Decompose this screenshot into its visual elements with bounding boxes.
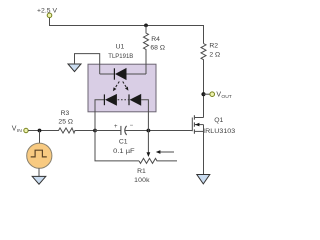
wire to pulse source bbox=[39, 131, 41, 144]
junction dot left pin bbox=[93, 129, 97, 133]
svg-text:OUT: OUT bbox=[221, 94, 231, 100]
pulse source square wave bbox=[31, 150, 47, 157]
resistor R1 bbox=[139, 158, 177, 163]
wire right photodiode pin / R1 wiper bbox=[141, 100, 148, 153]
svg-text:−: − bbox=[130, 123, 134, 129]
resistor R3 bbox=[57, 128, 95, 133]
resistor R2 bbox=[201, 44, 206, 118]
wire Vin to R3 bbox=[28, 130, 57, 132]
ground under Q1 bbox=[197, 175, 210, 184]
svg-text:2 Ω: 2 Ω bbox=[209, 51, 220, 58]
node Vin terminal circle bbox=[24, 128, 28, 132]
transistor Q1 drain stub bbox=[194, 117, 203, 119]
adjust annotation arrow bbox=[160, 151, 175, 153]
svg-text:IRLU3103: IRLU3103 bbox=[203, 128, 235, 135]
svg-text:+2.5 V: +2.5 V bbox=[37, 7, 57, 14]
transistor Q1 body stub bbox=[195, 124, 204, 126]
optocoupler U1 TLP191B body box bbox=[88, 64, 156, 112]
svg-text:25 Ω: 25 Ω bbox=[58, 119, 73, 126]
LED inside U1: wire bbox=[100, 73, 146, 75]
dashed link between photodiodes bbox=[118, 99, 129, 101]
light arrow left dashed bbox=[114, 82, 119, 90]
wire left photodiode pin down to R1 bbox=[95, 100, 139, 161]
junction dot top rail / R4 bbox=[144, 24, 148, 28]
svg-text:R1: R1 bbox=[137, 168, 146, 175]
svg-text:IN: IN bbox=[17, 128, 22, 134]
svg-text:R4: R4 bbox=[151, 36, 160, 43]
wire C1 to gate bbox=[125, 130, 192, 132]
svg-text:R3: R3 bbox=[61, 110, 70, 117]
svg-text:Q1: Q1 bbox=[214, 117, 223, 124]
LED triangle bbox=[115, 68, 127, 80]
svg-text:R2: R2 bbox=[209, 43, 218, 50]
svg-text:68 Ω: 68 Ω bbox=[150, 45, 165, 52]
junction dot pulse source bbox=[38, 129, 42, 133]
pulse source V1 bbox=[27, 143, 52, 168]
svg-text:U1: U1 bbox=[116, 43, 125, 50]
svg-text:C1: C1 bbox=[119, 139, 128, 146]
svg-text:TLP191B: TLP191B bbox=[108, 53, 133, 60]
svg-text:0.1 µF: 0.1 µF bbox=[113, 148, 134, 155]
capacitor C1 left plate bbox=[120, 126, 122, 135]
wire top rail from +2.5V to R2 bbox=[50, 18, 204, 44]
wire Q1 source to ground bbox=[203, 125, 205, 175]
node +2.5V terminal circle bbox=[47, 13, 52, 18]
R1 wiper arrowhead bbox=[147, 152, 151, 157]
wire rail to C1 bbox=[95, 130, 121, 132]
wire Vout stub bbox=[204, 93, 211, 95]
svg-text:100k: 100k bbox=[134, 177, 150, 184]
photodiode D1 triangle bbox=[105, 94, 117, 106]
wire pulse source to ground bbox=[38, 168, 40, 176]
LED cathode bar bbox=[113, 68, 115, 79]
svg-text:+: + bbox=[114, 124, 118, 130]
capacitor C1 right curved plate bbox=[125, 126, 127, 135]
transistor Q1 gate bar bbox=[191, 118, 193, 132]
junction dot Vout bbox=[201, 92, 205, 96]
photodiode D1 cathode bar bbox=[103, 94, 105, 105]
resistor R4 bbox=[144, 25, 149, 74]
wire ground to LED cathode bbox=[75, 54, 100, 74]
junction dot gate node bbox=[147, 129, 151, 133]
transistor Q1 channel segments bbox=[193, 115, 195, 133]
ground near U1 bbox=[68, 64, 81, 72]
photodiode D2 triangle bbox=[130, 94, 142, 106]
transistor Q1 body arrow bbox=[195, 123, 199, 127]
transistor Q1 source stub bbox=[194, 130, 203, 132]
node Vout terminal circle bbox=[210, 92, 215, 97]
photodiode D2 cathode bar bbox=[128, 94, 130, 105]
light arrow right dashed bbox=[123, 82, 127, 89]
ground under pulse source bbox=[32, 176, 46, 184]
